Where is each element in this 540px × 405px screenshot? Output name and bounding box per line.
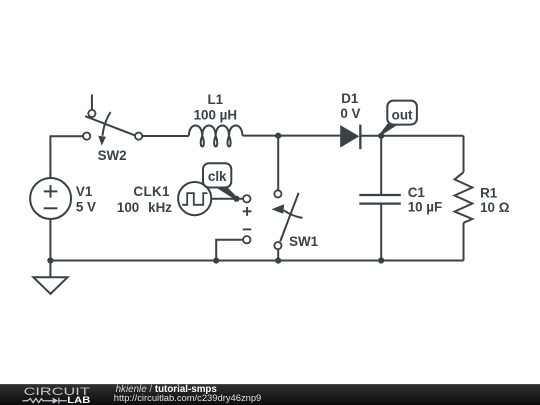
node out box	[387, 101, 417, 125]
capacitor C1 plates	[359, 195, 401, 204]
diode D1	[340, 125, 359, 148]
clock CLK1 circle	[178, 182, 211, 215]
CLK1 square wave glyph	[182, 193, 207, 205]
logo waveform	[22, 398, 66, 404]
terminal: SW1 top	[274, 190, 281, 197]
wire: V1 top stub	[49, 172, 51, 178]
SW2 arrowhead	[98, 136, 106, 146]
wire: SW1 top stub	[277, 136, 279, 190]
wire: right rail down to R1	[463, 136, 465, 173]
node label boxes	[203, 101, 417, 188]
logo diode glyph	[53, 398, 59, 404]
junction dot: CLK pointer	[233, 196, 239, 202]
switch SW2 arrow arc	[103, 112, 111, 136]
resistor R1 zigzag	[455, 172, 473, 223]
diode D1 cathode bar	[359, 125, 361, 150]
V1 minus sign	[44, 207, 58, 209]
wire: bottom rail	[50, 260, 463, 262]
svg-text:LAB: LAB	[67, 395, 90, 405]
terminal: SW2 top	[88, 110, 95, 117]
wire: SW2 right to L1	[143, 135, 189, 137]
junction dot: CLK return	[213, 258, 219, 264]
ground symbol	[33, 277, 67, 294]
terminal: SW2 right	[135, 133, 142, 140]
capacitor C1 bottom lead	[380, 204, 382, 261]
terminal circles	[83, 110, 281, 249]
callout pointer: clk	[215, 187, 238, 201]
wire: D1 cathode to right rail	[360, 135, 463, 137]
junction dot: V1 bottom	[47, 257, 53, 263]
CLK1 minus mark	[243, 228, 252, 230]
capacitor C1 top lead	[380, 136, 382, 195]
wire: CLK1 minus terminal to bottom rail	[216, 240, 243, 261]
switch SW1 blade	[280, 193, 298, 242]
wire: CLK1 output to terminal	[211, 198, 242, 200]
terminal: SW2 left	[83, 133, 90, 140]
CLK1 plus mark	[243, 207, 252, 216]
wire: ground stub	[49, 261, 51, 278]
callout pointer: out	[380, 124, 399, 135]
wire: SW2 top stub	[91, 94, 93, 109]
voltage source V1 circle	[30, 178, 71, 219]
junction dot: C1 bottom	[378, 257, 384, 263]
terminal: CLK1 minus	[243, 236, 250, 243]
V1 plus sign	[44, 185, 58, 198]
junction dot: SW1 top rail	[275, 133, 281, 139]
junction dot: SW1 bottom	[275, 258, 281, 264]
SW1 arrowhead	[272, 204, 285, 213]
switch SW2 blade	[85, 116, 134, 135]
inductor L1	[189, 125, 243, 146]
wire: left rail top corner	[50, 136, 82, 178]
wire: SW1 bottom stub	[277, 249, 279, 260]
wire: L1 to D1	[242, 135, 340, 137]
junction dot: out node	[378, 133, 384, 139]
node clk box	[203, 163, 231, 187]
wire: R1 bottom to bottom rail	[463, 223, 465, 261]
footer bar	[0, 384, 540, 405]
terminal: SW1 bottom	[274, 242, 281, 249]
wire: V1 bottom stub	[49, 219, 51, 261]
terminal: CLK1 plus	[243, 195, 250, 202]
svg-text:http://circuitlab.com/c239dry4: http://circuitlab.com/c239dry46znp9	[114, 392, 261, 403]
switch SW1 arrow arc	[284, 210, 303, 218]
